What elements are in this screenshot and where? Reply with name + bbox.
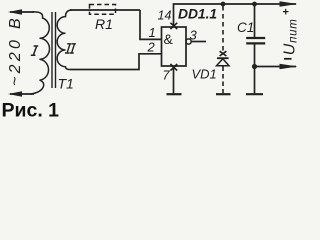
- + output arrow: [280, 1, 298, 7]
- chassis common under VD1: [216, 93, 231, 95]
- wire secondary top to R1 to corner: [70, 9, 140, 11]
- wire pin7 down: [173, 66, 175, 93]
- chassis common under pin 7: [167, 93, 182, 95]
- svg-text:+: +: [283, 7, 289, 19]
- input terminal arrow top: [8, 9, 34, 14]
- cross at VD1 cathode: [220, 51, 227, 56]
- op-amp gate DD1.1 body: [162, 27, 187, 66]
- svg-text:VD1: VD1: [192, 67, 217, 82]
- svg-text:1: 1: [149, 25, 156, 40]
- resistor R1 (dashed outline): [90, 5, 116, 15]
- pin 14 cross: [170, 23, 177, 29]
- svg-text:&: &: [164, 31, 174, 47]
- capacitor C1: [254, 4, 256, 37]
- wire pin14 to top rail: [174, 4, 297, 27]
- svg-text:2: 2: [147, 40, 156, 55]
- svg-text:7: 7: [163, 69, 171, 83]
- wire corner down to pin 1: [140, 10, 162, 39]
- wire secondary bottom to pin 2: [70, 54, 162, 70]
- transformer T1 secondary winding II: [57, 10, 72, 70]
- dashed wire below VD1: [222, 67, 224, 94]
- pin 7 cross: [170, 64, 177, 71]
- svg-text:~220 В: ~220 В: [7, 15, 24, 86]
- node junction on rail (VD1 tap): [221, 2, 226, 7]
- minus sign: [284, 58, 292, 60]
- winding label II: [65, 44, 76, 53]
- output wire stub: [191, 41, 206, 43]
- transformer T1 primary winding I: [30, 12, 50, 94]
- output bubble pin 3: [186, 39, 191, 44]
- minus output wire: [255, 66, 297, 68]
- svg-text:T1: T1: [58, 76, 74, 92]
- dashed wire to VD1: [222, 6, 224, 51]
- svg-text:3: 3: [190, 28, 198, 43]
- node junction on rail (C1 tap): [252, 2, 257, 7]
- winding label I: [31, 46, 38, 55]
- svg-text:Рис. 1: Рис. 1: [2, 100, 60, 121]
- svg-text:C1: C1: [237, 20, 254, 35]
- svg-text:14: 14: [158, 9, 172, 23]
- transformer core: [51, 12, 53, 88]
- input terminal arrow bottom: [8, 91, 34, 96]
- diode VD1: [217, 57, 229, 59]
- chassis common under C1: [246, 93, 263, 95]
- svg-text:DD1.1: DD1.1: [178, 7, 217, 22]
- - output arrow: [280, 64, 298, 70]
- svg-text:R1: R1: [95, 16, 113, 32]
- node junction minus tap: [252, 64, 257, 69]
